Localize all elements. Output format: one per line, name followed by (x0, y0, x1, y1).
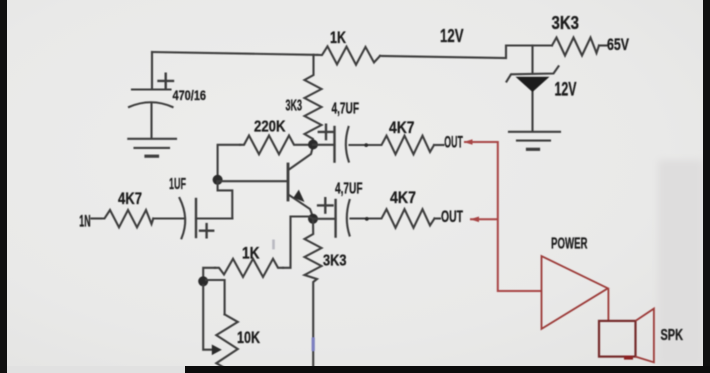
svg-text:1N: 1N (79, 212, 90, 231)
svg-text:3K3: 3K3 (552, 12, 580, 33)
wire input-cap link (218, 183, 233, 219)
junction dot (upper out line) (364, 143, 368, 147)
wire rail to step (380, 46, 552, 59)
resistor 4K7 (upper out) (377, 136, 434, 155)
wire node C to cap 4,7UF lower (313, 218, 336, 220)
zener diode D1 triangle (516, 77, 550, 92)
resistor 1K (feedback) (215, 259, 283, 277)
wire base (218, 180, 288, 182)
red wire from OUT upper (464, 142, 542, 291)
wire 4K7 to OUT (434, 144, 444, 146)
node D (1K / pot junction dot) (198, 276, 208, 286)
transistor Q1 base bar (287, 164, 290, 200)
plus sign lower 4,7UF (318, 198, 332, 212)
svg-text:1UF: 1UF (169, 176, 186, 193)
zener diode D1 top lead (531, 46, 533, 74)
capacitor 470/16 bottom lead (150, 104, 152, 137)
wire after 3K3 to 65V (599, 44, 607, 46)
junction dot (lower out line) (365, 217, 369, 221)
red arrow tick lower OUT (470, 217, 479, 223)
svg-text:4K7: 4K7 (390, 188, 416, 207)
svg-text:3K3: 3K3 (323, 253, 347, 270)
svg-text:4K7: 4K7 (389, 118, 415, 137)
black bar right edge (703, 0, 710, 373)
potentiometer 10K track (216, 314, 238, 370)
svg-text:3K3: 3K3 (286, 98, 303, 115)
wire IN stub (92, 217, 102, 219)
blue artifact on wire (312, 338, 315, 352)
wire lower 4K7 to OUT (435, 217, 441, 219)
svg-text:OUT: OUT (441, 207, 463, 226)
svg-text:4,7UF: 4,7UF (335, 181, 363, 198)
resistor 4K7 (input) (101, 210, 153, 227)
svg-text:POWER: POWER (551, 235, 588, 252)
svg-text:1K: 1K (242, 243, 260, 262)
svg-text:OUT: OUT (444, 133, 463, 152)
capacitor 4,7UF (upper) straight plate (333, 127, 335, 162)
wire 1UF output (196, 217, 232, 219)
ground (left, under 470/16) (128, 138, 176, 140)
wire 220K left + drop (218, 145, 240, 176)
zener diode D1 cathode bar with wings (507, 66, 559, 81)
plus sign 1UF (200, 224, 213, 237)
capacitor 4,7UF (lower) straight plate (334, 200, 336, 237)
resistor 3K3 (vertical, emitter) (305, 219, 322, 366)
node A (base junction dot) (213, 175, 223, 185)
svg-text:1K: 1K (330, 28, 347, 47)
speaker box (599, 321, 636, 357)
wire node D to pot top (206, 280, 225, 314)
red arrow tick upper OUT (464, 139, 473, 145)
node B (collector node dot) (308, 140, 318, 150)
plus sign 470/16 (159, 74, 174, 88)
wire input resistor to 1UF (153, 217, 184, 219)
faint I artifact (272, 240, 275, 250)
speaker red mark (624, 356, 633, 360)
black bar bottom (185, 366, 710, 373)
wire lower cap to 4K7 (351, 217, 378, 219)
potentiometer wiper arrow (212, 345, 222, 356)
capacitor 4,7UF (upper) curved plate (346, 127, 349, 162)
speaker horn (636, 309, 654, 363)
svg-text:10K: 10K (237, 328, 261, 347)
zener diode D1 bottom lead (531, 91, 533, 131)
node C (emitter node dot) (308, 214, 318, 224)
wire node B to cap 4,7UF (313, 144, 335, 146)
wire emitter node to 1K link (283, 217, 313, 268)
resistor 1K (top rail) (318, 46, 381, 64)
svg-text:65V: 65V (607, 35, 629, 54)
transistor Q1 emitter arrow (293, 190, 304, 202)
red wire from OUT lower (470, 218, 498, 220)
capacitor 470/16 top plate (132, 88, 171, 90)
svg-text:470/16: 470/16 (173, 88, 207, 103)
capacitor 1UF curved plate (180, 198, 186, 238)
resistor 220K (240, 136, 308, 155)
capacitor 470/16 curved plate (129, 102, 173, 107)
capacitor 1UF straight plate (195, 199, 197, 237)
svg-text:12V: 12V (555, 80, 577, 101)
wire amp output (607, 289, 609, 321)
transistor Q1 emitter (289, 195, 313, 217)
svg-text:4,7UF: 4,7UF (332, 101, 360, 118)
wire cap to 4K7 (350, 144, 378, 146)
resistor 4K7 (lower out) (377, 209, 435, 228)
black bar left edge (0, 0, 7, 373)
capacitor 470/16 positive lead (151, 52, 153, 89)
wire 1K left (203, 268, 215, 277)
plus sign upper 4,7UF (319, 125, 333, 139)
ground (under zener) (509, 131, 560, 133)
svg-text:4K7: 4K7 (118, 189, 142, 208)
wire node D to pot wiper (203, 285, 212, 350)
svg-text:12V: 12V (440, 25, 464, 46)
transistor Q1 collector (289, 146, 313, 170)
capacitor 4,7UF (lower) curved plate (347, 200, 350, 236)
svg-text:220K: 220K (254, 119, 286, 136)
wire top rail (sloped) (152, 52, 318, 55)
resistor 3K3 (vertical, collector load) (305, 55, 322, 145)
svg-text:SPK: SPK (661, 327, 684, 344)
power amplifier triangle (542, 256, 609, 329)
resistor 3K3 (top right, to 65V) (552, 38, 599, 56)
